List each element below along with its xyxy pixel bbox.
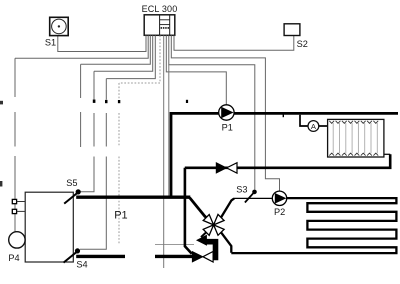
radiator outlet stub — [384, 153, 390, 155]
sensor S4 — [64, 248, 88, 269]
wire to pump P1 — [166, 35, 226, 104]
heat exchanger pipe (secondary return) — [76, 255, 125, 258]
valve port SE line to coil return — [221, 232, 231, 253]
svg-text:S5: S5 — [66, 178, 77, 188]
floor heating coil — [231, 198, 396, 253]
wire S2 to ECL — [174, 35, 294, 50]
controller U1 ECL box — [144, 15, 175, 36]
wire junction mark S4 — [105, 100, 108, 103]
flow arrow (bold) — [197, 236, 215, 261]
svg-text:S4: S4 — [76, 260, 87, 270]
edge fragment A — [0, 101, 3, 105]
return pipe with riser — [185, 154, 390, 168]
radiator branch drop — [300, 115, 308, 126]
supply terminal square 1 — [12, 199, 16, 203]
wire run to exchanger — [168, 65, 170, 197]
wire centre run — [163, 35, 165, 268]
wire to valve (horizontal run) — [155, 244, 194, 246]
sensor S3 — [236, 184, 256, 202]
check valve V1 — [216, 163, 237, 173]
wire (dashed) to valve actuator — [119, 35, 160, 244]
wire mark right — [186, 100, 188, 103]
wire to pump P2 — [171, 35, 279, 191]
supply pipe with riser — [171, 113, 398, 196]
terminal stub 1 — [17, 201, 26, 203]
wire stub (unterminated) — [81, 35, 151, 147]
wire S1 to ECL — [58, 35, 146, 51]
heat exchanger HX1 — [25, 192, 73, 262]
svg-text:P2: P2 — [274, 207, 285, 217]
check valve V2 — [192, 252, 213, 263]
pipe tick — [283, 114, 284, 117]
valve port SW stub — [201, 231, 207, 237]
heat exchanger pipe (secondary supply) — [76, 195, 190, 198]
svg-text:S1: S1 — [45, 38, 56, 48]
mixing valve M1 (4-way) — [203, 214, 224, 235]
valve port NW link — [205, 216, 208, 219]
sensor S1 — [45, 17, 68, 47]
wire to pump P4 — [15, 35, 148, 232]
pump P2 — [272, 191, 286, 217]
sensor S5 — [64, 178, 81, 203]
wire junction mark S5 — [93, 100, 96, 103]
supply terminal square 2 — [12, 209, 16, 213]
return riser pipe — [185, 168, 192, 254]
svg-text:P4: P4 — [8, 253, 19, 263]
terminal stub 2 — [17, 210, 26, 212]
svg-text:ECL 300: ECL 300 — [142, 4, 178, 14]
radiator — [328, 119, 384, 157]
edge fragment B — [0, 181, 2, 187]
svg-text:P1: P1 — [222, 122, 233, 132]
wire junction mark valve — [118, 100, 120, 103]
pump P1 — [219, 105, 234, 133]
wire to sensor S5 — [81, 35, 153, 191]
svg-text:S2: S2 — [297, 39, 308, 49]
sensor S2 — [284, 24, 308, 49]
pump P4 — [8, 232, 25, 263]
valve port NE line to S3 — [221, 198, 234, 217]
wire to sensor S3 — [169, 35, 255, 189]
thermostat A — [308, 121, 328, 132]
wire to sensor S4 — [80, 35, 155, 249]
pipe diagonal to valve — [190, 198, 206, 217]
svg-text:S3: S3 — [236, 184, 247, 194]
circuit line S3 to P2 — [234, 197, 273, 199]
svg-text:P1: P1 — [114, 209, 127, 221]
